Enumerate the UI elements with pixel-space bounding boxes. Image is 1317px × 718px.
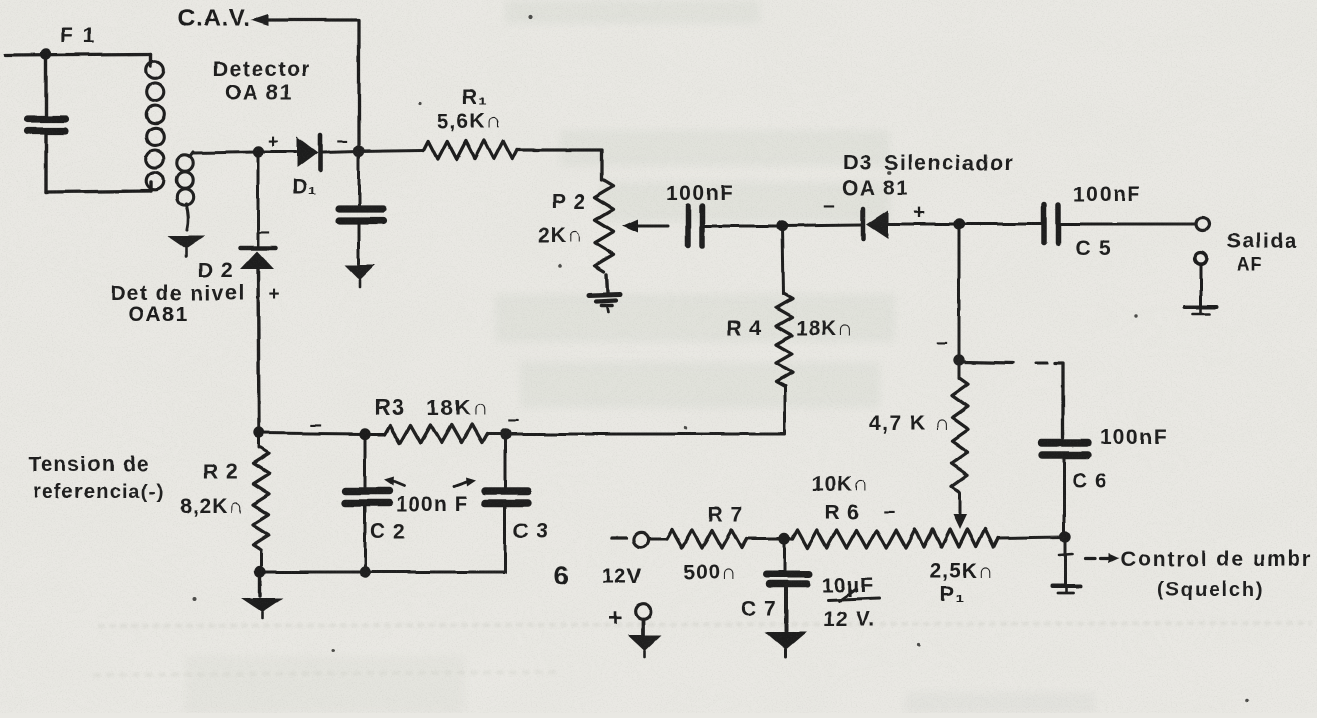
- resistor R3: [385, 425, 487, 443]
- diode D1: [297, 137, 318, 168]
- wire supply terminal to ground: [641, 619, 645, 636]
- node C junction: [776, 220, 787, 231]
- wire node E to C6 (faded dashes): [963, 362, 1013, 363]
- dashed arrow to squelch label: [1085, 556, 1095, 559]
- node C2-top junction: [359, 428, 370, 439]
- wire node D to C5: [959, 223, 1042, 226]
- inductor L1 primary (F1 coil): [149, 54, 152, 66]
- supply terminal dash: [612, 536, 626, 539]
- wire node A to D1: [258, 151, 296, 154]
- wire node A down to D2: [257, 152, 260, 246]
- wire P2 to ground: [607, 275, 608, 292]
- capacitor under node B: [358, 151, 361, 205]
- capacitor C5: [1041, 205, 1047, 243]
- diode D2: [240, 246, 276, 251]
- wire node B up to C.A.V.: [268, 20, 359, 151]
- resistor R7: [667, 530, 747, 548]
- inductor secondary winding: [190, 152, 193, 156]
- node D junction: [953, 218, 964, 229]
- potentiometer P2 body: [595, 180, 614, 272]
- wire secondary to node A: [193, 152, 258, 153]
- node A junction: [252, 146, 263, 157]
- arrow right over C3: [454, 481, 468, 486]
- potentiometer P1 body: [911, 529, 998, 547]
- wire D2 to node H: [258, 268, 259, 433]
- node C2-bottom junction: [359, 566, 370, 577]
- capacitor of F1 tank (left branch): [44, 54, 47, 116]
- resistor R4: [776, 294, 792, 386]
- capacitor C6: [1042, 439, 1088, 446]
- capacitor C3: [504, 434, 507, 487]
- diode D3: [861, 209, 866, 239]
- supply ground terminal circle: [635, 603, 651, 619]
- wire bottom rail (node J to C3): [260, 571, 505, 574]
- wiper arrow of P2: [636, 225, 668, 228]
- node B junction: [353, 145, 364, 156]
- resistor R2: [258, 433, 261, 448]
- arrow left over C2: [392, 481, 404, 486]
- wire node D down to node E: [958, 224, 961, 360]
- resistor R1: [424, 141, 517, 159]
- wire R3 to node I: [487, 433, 505, 436]
- wire terminal to R7: [650, 538, 667, 541]
- node F1 top-left junction: [40, 48, 51, 59]
- output ground terminal: [1195, 252, 1207, 264]
- wire node C down to R4: [782, 226, 783, 294]
- resistor 4.7K: [958, 360, 961, 378]
- wire node H to C2 top: [259, 433, 365, 434]
- wiper arrow onto P1: [959, 492, 962, 514]
- supply terminal circle: [633, 532, 648, 547]
- wire D1 to node B: [322, 151, 359, 152]
- ground under node B capacitor: [345, 265, 375, 280]
- wire C2 top to R3: [365, 433, 385, 436]
- resistor R6: [792, 530, 911, 548]
- wire node G to C7: [783, 539, 786, 570]
- node G junction: [778, 533, 789, 544]
- node F junction: [1059, 531, 1070, 542]
- wire node C to D3: [782, 225, 861, 226]
- wire top of F1 tank: [5, 54, 151, 55]
- ground under node F: [1052, 584, 1080, 588]
- ground under supply terminal: [628, 635, 662, 651]
- ground under R2: [258, 572, 261, 596]
- wire bottom of F1 tank: [46, 191, 151, 192]
- capacitor 100nF (P2 to D3 node): [685, 206, 691, 246]
- wire P1 to node F: [998, 537, 1065, 538]
- node J junction (R2 bottom): [254, 566, 265, 577]
- wire node F down with tick: [1064, 537, 1067, 584]
- wire D3 to node D: [888, 223, 959, 226]
- wire R4 to mid rail: [784, 386, 787, 433]
- wire node B to R1: [359, 150, 424, 151]
- node E junction: [953, 354, 964, 365]
- wire C5 to output terminal: [1060, 223, 1196, 226]
- ground under C7 (large): [765, 632, 807, 650]
- output terminal Salida AF: [1197, 218, 1210, 231]
- wire output ground terminal down: [1200, 264, 1203, 305]
- ground bar at output: [1185, 305, 1217, 309]
- ground under secondary winding: [167, 236, 205, 249]
- capacitor C2: [364, 434, 367, 487]
- node I junction: [499, 428, 510, 439]
- capacitor C7 (electrolytic): [766, 571, 809, 578]
- wire R7 to node G: [747, 538, 792, 541]
- ground under P2 (stacked bars): [589, 294, 620, 295]
- arrow to C.A.V.: [251, 14, 269, 26]
- wire R1 to P2 corner: [517, 150, 602, 180]
- wire node I to R4 bottom (long rail): [505, 433, 785, 436]
- node H junction: [253, 427, 264, 438]
